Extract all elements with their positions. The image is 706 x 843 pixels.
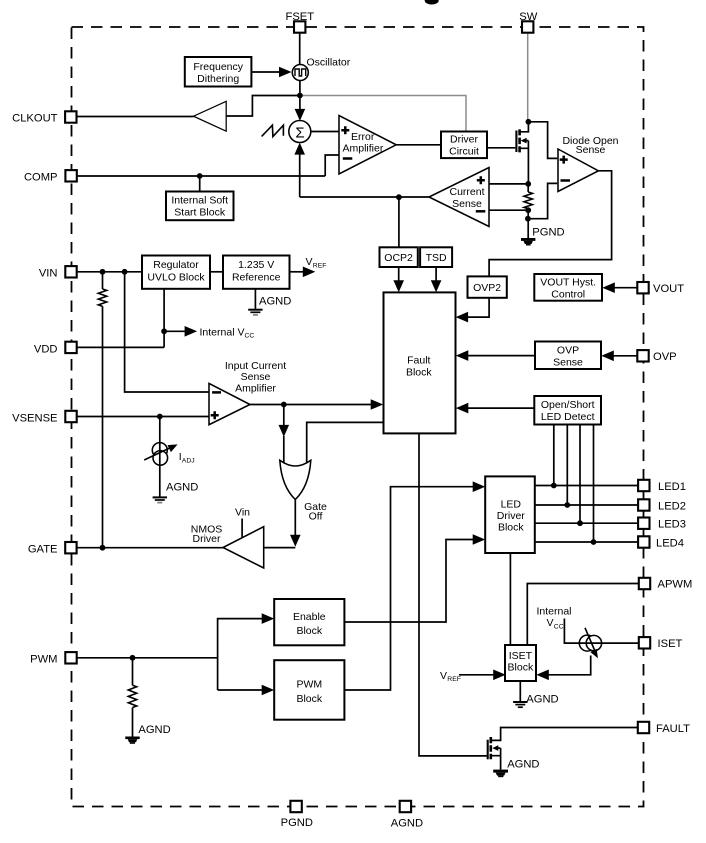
- resistor PWM pulldown: [132, 658, 134, 685]
- svg-text:AGND: AGND: [259, 296, 291, 308]
- open short LED detect block: [534, 396, 601, 425]
- svg-text:LED Detect: LED Detect: [541, 411, 595, 423]
- svg-text:Block: Block: [296, 693, 322, 705]
- node GATE resistor junction: [100, 545, 106, 551]
- svg-text:VSENSE: VSENSE: [12, 412, 57, 424]
- pin VSENSE: [65, 411, 76, 422]
- wire diode open sense minus tap: [528, 183, 557, 218]
- node OCP2 branch: [396, 194, 402, 200]
- svg-text:Regulator: Regulator: [153, 259, 199, 271]
- svg-text:AGND: AGND: [391, 818, 423, 830]
- wire arrow OVP sense to fault block: [466, 355, 535, 357]
- svg-text:Block: Block: [406, 366, 432, 378]
- wire diode open sense plus tap: [528, 122, 557, 159]
- svg-text:VDD: VDD: [34, 343, 58, 355]
- svg-text:V: V: [306, 256, 313, 268]
- enable block: [274, 599, 344, 645]
- svg-text:FSET: FSET: [286, 11, 315, 23]
- pin SW: [522, 21, 533, 32]
- wire arrow VOUT pin to hyst control: [613, 287, 637, 289]
- wire PWM line: [77, 657, 218, 659]
- wire LED2 line: [535, 504, 638, 506]
- svg-text:OVP2: OVP2: [473, 282, 501, 294]
- svg-text:PGND: PGND: [281, 817, 313, 829]
- svg-text:CC: CC: [554, 623, 564, 630]
- pin LED1: [638, 480, 649, 491]
- wire current sense plus input: [489, 183, 528, 185]
- node LED2 sense: [564, 502, 570, 508]
- node internal vcc branch: [161, 328, 167, 334]
- wire arrow OVP pin to OVP sense: [612, 355, 637, 357]
- OVP2 block: [468, 276, 507, 297]
- svg-text:Sense: Sense: [576, 144, 606, 156]
- wire sigma to error amp +: [311, 131, 340, 133]
- wire LED4 line: [535, 541, 638, 543]
- wire Vin stub: [241, 519, 243, 541]
- resistor current sense R1: [527, 184, 529, 192]
- svg-text:Block: Block: [498, 521, 524, 533]
- svg-text:SW: SW: [519, 11, 537, 23]
- driver circuit block: [441, 132, 487, 159]
- wire CLKOUT line: [77, 116, 194, 118]
- svg-text:GATE: GATE: [28, 544, 58, 556]
- node LED1 sense: [551, 483, 557, 489]
- svg-text:PWM: PWM: [30, 654, 57, 666]
- pin VIN: [65, 266, 76, 277]
- svg-text:PGND: PGND: [532, 226, 564, 238]
- svg-text:1.235 V: 1.235 V: [238, 259, 274, 271]
- OCP2 block: [380, 247, 418, 267]
- pin LED2: [638, 499, 649, 510]
- svg-text:OCP2: OCP2: [384, 252, 413, 264]
- wire buffer base to oscillator node: [226, 96, 300, 117]
- svg-text:Oscillator: Oscillator: [307, 57, 351, 69]
- ground AGND reference: [248, 296, 291, 315]
- node sense resistor top: [525, 181, 531, 187]
- wire arrow OVP2 to fault block: [466, 298, 489, 317]
- pin PWM: [65, 652, 76, 663]
- ground AGND IADJ: [153, 482, 199, 503]
- pin LED4: [638, 536, 649, 547]
- svg-text:Driver: Driver: [193, 533, 222, 545]
- pin APWM: [639, 578, 650, 589]
- ground PGND internal: [521, 226, 565, 245]
- wire arrow enable block to LED driver: [344, 540, 474, 623]
- wire UVLO to reference: [210, 271, 223, 273]
- svg-text:COMP: COMP: [24, 172, 58, 184]
- wire arrow current sense line up into sigma bottom: [299, 153, 301, 197]
- svg-text:VIN: VIN: [39, 268, 58, 280]
- node LED3 sense: [577, 520, 583, 526]
- svg-text:Circuit: Circuit: [449, 145, 479, 157]
- svg-text:AGND: AGND: [138, 724, 170, 736]
- wire LED1 line: [535, 485, 638, 487]
- OVP sense block: [535, 342, 601, 370]
- pin VDD: [65, 342, 76, 353]
- node IADJ branch: [157, 414, 163, 420]
- svg-text:Sense: Sense: [241, 371, 271, 383]
- svg-text:LED2: LED2: [658, 501, 686, 513]
- svg-text:LED3: LED3: [658, 519, 686, 531]
- node VIN resistor branch: [100, 269, 106, 275]
- wire gray oscillator output to driver circuit: [301, 96, 466, 131]
- wire current sense minus input: [489, 209, 528, 211]
- wire error amp minus step: [325, 155, 339, 176]
- svg-text:Input Current: Input Current: [225, 360, 286, 372]
- svg-text:VOUT Hyst.: VOUT Hyst.: [540, 276, 596, 288]
- current source ISET: [564, 619, 639, 659]
- sawtooth ramp symbol: [262, 125, 284, 136]
- svg-text:Current: Current: [449, 186, 484, 198]
- diode open sense comparator U4: [558, 149, 598, 192]
- wire VIN line: [77, 271, 142, 273]
- wire fault block to OR gate right input: [307, 422, 384, 464]
- wire reference to AGND: [254, 289, 256, 309]
- resistor VIN divider: [102, 272, 104, 289]
- wire UVLO down to VDD: [163, 289, 165, 348]
- wire LED detect sense line 4: [593, 425, 595, 543]
- wire LED detect sense line 3: [579, 425, 581, 524]
- svg-text:ISET: ISET: [658, 638, 683, 650]
- PWM block: [274, 660, 344, 720]
- wire arrow VREF output: [290, 271, 305, 273]
- OR gate gate-off: [280, 460, 311, 499]
- current sense amplifier U3: [429, 168, 489, 227]
- svg-text:Frequency: Frequency: [193, 61, 243, 73]
- wire LED3 line: [535, 522, 638, 524]
- pin COMP: [65, 170, 76, 181]
- svg-text:LED: LED: [501, 498, 522, 510]
- svg-text:AGND: AGND: [526, 693, 558, 705]
- wire LED driver to ISET block: [509, 553, 511, 645]
- wire arrow internal vcc: [164, 330, 186, 332]
- wire soft start stub: [199, 176, 201, 192]
- ground AGND fault mosfet: [493, 759, 539, 778]
- wire error amp to driver circuit: [396, 144, 441, 146]
- svg-text:REF: REF: [313, 262, 327, 269]
- svg-text:LED4: LED4: [656, 538, 684, 550]
- pin PGND: [290, 801, 301, 812]
- svg-text:Start Block: Start Block: [174, 206, 226, 218]
- svg-text:PWM: PWM: [296, 679, 322, 691]
- node gate off branch: [281, 402, 287, 408]
- frequency dithering block: [185, 57, 252, 87]
- svg-text:AGND: AGND: [166, 482, 198, 494]
- ISET block: [505, 645, 536, 681]
- svg-text:Internal V: Internal V: [200, 326, 245, 338]
- buffer amplifier (CLKOUT): [194, 101, 227, 131]
- pin FAULT: [638, 722, 649, 733]
- wire driver circuit to mosfet gate: [487, 147, 515, 149]
- pin AGND: [400, 801, 411, 812]
- wire current sense output to sigma line: [300, 196, 429, 198]
- svg-text:Driver: Driver: [450, 133, 479, 145]
- wire arrow OR output gate off: [294, 500, 296, 537]
- svg-text:Vin: Vin: [235, 507, 250, 519]
- transistor Q1 switch mosfet: [516, 122, 528, 184]
- internal soft start block: [166, 192, 234, 221]
- wire gray SW line: [527, 32, 529, 120]
- svg-text:Off: Off: [309, 511, 323, 523]
- TSD block: [420, 247, 452, 267]
- svg-text:AGND: AGND: [507, 759, 539, 771]
- svg-text:Error: Error: [351, 131, 375, 143]
- wire VDD line: [77, 346, 164, 348]
- node SW mosfet drain: [526, 119, 532, 125]
- node sense resistor bottom: [525, 207, 531, 213]
- partial title glyph descender: [425, 0, 439, 5]
- wire VSENSE line: [77, 416, 209, 418]
- wire fault block output down to fault mosfet gate: [419, 433, 487, 756]
- svg-text:FAULT: FAULT: [656, 723, 690, 735]
- NMOS driver U6: [223, 527, 264, 568]
- wire arrow VREF to ISET block: [459, 674, 495, 676]
- svg-text:V: V: [547, 617, 554, 629]
- wire oscillator to node below: [299, 81, 301, 96]
- pin ISET: [639, 637, 650, 648]
- sigma adder: [289, 121, 311, 143]
- svg-text:Internal Soft: Internal Soft: [171, 194, 228, 206]
- node LED4 sense: [591, 539, 597, 545]
- wire PWM tee to enable and PWM blocks: [218, 619, 267, 690]
- pin LED3: [638, 518, 649, 529]
- pin VOUT: [637, 282, 648, 293]
- wire arrow freq dithering to oscillator: [252, 71, 282, 73]
- svg-text:ISET: ISET: [509, 650, 533, 662]
- pin FSET: [294, 21, 305, 32]
- error amplifier U2: [339, 116, 396, 175]
- wire GATE line: [77, 547, 223, 549]
- wire arrow PWM block to LED driver: [344, 487, 474, 690]
- svg-text:Driver: Driver: [497, 510, 526, 522]
- wire diode open sense output to OVP2: [489, 171, 611, 277]
- svg-text:Sense: Sense: [553, 357, 583, 369]
- transistor Q2 fault mosfet: [488, 737, 501, 770]
- regulator UVLO block: [142, 256, 210, 289]
- ground AGND ISET: [513, 693, 559, 707]
- pin CLKOUT: [65, 111, 76, 122]
- svg-text:Open/Short: Open/Short: [541, 399, 595, 411]
- wire arrow down to OR gate left input: [283, 405, 285, 427]
- wire NMOS driver output: [264, 547, 296, 549]
- wire FAULT pin to mosfet drain: [491, 728, 638, 741]
- fault block: [384, 292, 456, 433]
- svg-text:UVLO Block: UVLO Block: [147, 272, 205, 284]
- svg-text:Internal: Internal: [536, 606, 571, 618]
- wire arrow TSD to fault block: [435, 267, 437, 282]
- node VIN sense branch: [122, 269, 128, 275]
- wire down to OCP2: [398, 197, 400, 247]
- LED driver block: [485, 476, 535, 553]
- svg-text:Block: Block: [508, 662, 534, 674]
- svg-text:LED1: LED1: [658, 481, 686, 493]
- wire FSET to oscillator: [299, 32, 301, 64]
- pin OVP: [637, 350, 648, 361]
- svg-text:Dithering: Dithering: [197, 73, 239, 85]
- svg-text:Σ: Σ: [295, 124, 304, 141]
- svg-text:ADJ: ADJ: [182, 458, 195, 465]
- ground AGND PWM: [125, 724, 170, 744]
- wire VIN branch to amp minus: [125, 272, 209, 392]
- wire arrow LED detect to fault block: [466, 407, 534, 409]
- svg-text:REF: REF: [447, 676, 461, 683]
- svg-text:Reference: Reference: [232, 272, 281, 284]
- VOUT hysteresis control block: [534, 274, 602, 301]
- IC boundary dashed border: [72, 27, 644, 807]
- svg-text:CLKOUT: CLKOUT: [12, 113, 58, 125]
- wire LED detect sense line 1: [553, 425, 555, 486]
- wire APWM line to ISET block: [527, 584, 639, 646]
- wire arrow OCP2 to fault block: [398, 267, 400, 282]
- node PWM resistor branch: [130, 655, 136, 661]
- wire COMP line: [77, 175, 325, 177]
- svg-text:Amplifier: Amplifier: [343, 143, 384, 155]
- pin GATE: [65, 542, 76, 553]
- wire arrow into sigma adder top: [299, 96, 301, 111]
- svg-text:VOUT: VOUT: [653, 283, 684, 295]
- wire LED detect sense line 2: [566, 425, 568, 506]
- node below oscillator: [297, 93, 303, 99]
- node diode sense minus tap: [525, 216, 531, 222]
- wire ISET block to AGND: [519, 681, 521, 702]
- svg-text:Block: Block: [296, 625, 322, 637]
- svg-text:OVP: OVP: [557, 345, 579, 357]
- oscillator U1: [292, 65, 308, 81]
- svg-text:V: V: [440, 670, 447, 682]
- wire arrow current source to ISET block: [547, 656, 591, 675]
- wire arrow amp output to fault block: [250, 404, 372, 406]
- node COMP to soft start: [197, 173, 203, 179]
- current source IADJ: [144, 417, 194, 497]
- svg-text:OVP: OVP: [653, 351, 677, 363]
- svg-text:Enable: Enable: [293, 611, 326, 623]
- svg-text:CC: CC: [245, 333, 255, 340]
- svg-text:Amplifier: Amplifier: [235, 382, 276, 394]
- svg-text:Sense: Sense: [452, 198, 482, 210]
- svg-text:Control: Control: [551, 288, 585, 300]
- svg-text:APWM: APWM: [658, 579, 693, 591]
- 1.235V reference block: [223, 256, 290, 289]
- svg-text:TSD: TSD: [426, 252, 447, 264]
- svg-text:Fault: Fault: [407, 354, 430, 366]
- input current sense amplifier U5: [209, 383, 250, 424]
